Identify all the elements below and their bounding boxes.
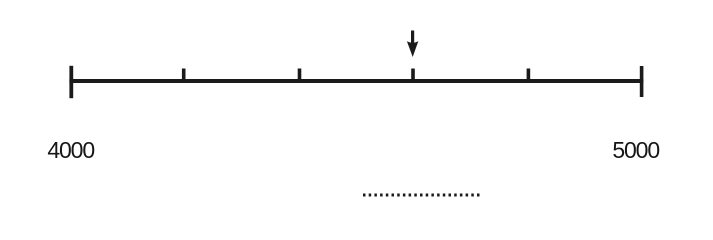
tick 4200 [182,69,186,84]
tick 4800 [527,69,531,84]
arrow shaft [411,31,414,46]
left end tick (4000) [69,66,73,98]
tick 4400 [298,69,302,84]
tick 4600 (pointed to by arrow) [411,69,415,84]
svg-text:4000: 4000 [47,137,94,163]
number line (main horizontal axis 4000-5000) [69,79,643,83]
arrow head [407,41,418,57]
right end tick (5000) [640,66,644,97]
dotted answer line [363,194,480,197]
svg-text:5000: 5000 [612,137,659,163]
